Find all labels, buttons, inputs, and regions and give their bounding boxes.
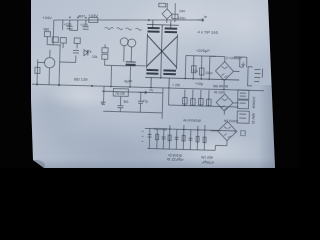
svg-text:47k: 47k (86, 50, 92, 54)
svg-text:100n: 100n (205, 71, 212, 75)
svg-text:+ 2W: + 2W (172, 83, 181, 87)
svg-text:3x10A 2x: 3x10A 2x (168, 153, 182, 157)
svg-text:4 x TIP 245: 4 x TIP 245 (197, 29, 218, 35)
svg-text:24V/0.5A: 24V/0.5A (223, 119, 238, 123)
svg-text:10k: 10k (92, 55, 98, 59)
svg-text:100n: 100n (178, 16, 186, 20)
svg-text:+24V: +24V (42, 15, 52, 20)
svg-text:+24V: +24V (88, 13, 98, 18)
svg-text:+220µF: +220µF (196, 48, 210, 53)
svg-text:5M49 84: 5M49 84 (153, 127, 166, 131)
svg-text:10µ: 10µ (192, 69, 198, 73)
svg-text:7V: 7V (149, 88, 154, 92)
svg-text:680: 680 (44, 28, 50, 32)
svg-text:BAV 10: BAV 10 (251, 113, 255, 124)
svg-text:78 05: 78 05 (115, 91, 126, 96)
svg-text:4k 100n: 4k 100n (214, 90, 226, 94)
svg-text:NB 4R7W: NB 4R7W (213, 84, 229, 88)
svg-text:5k1: 5k1 (124, 100, 129, 104)
svg-text:24V: 24V (179, 9, 186, 13)
svg-text:+100: +100 (80, 23, 88, 27)
svg-text:4x HYN/1W: 4x HYN/1W (183, 118, 202, 123)
svg-text:4R7: 4R7 (78, 13, 86, 18)
svg-text:Ie: Ie (204, 15, 207, 19)
svg-text:BD 139: BD 139 (74, 76, 88, 81)
svg-text:+220: +220 (64, 23, 72, 27)
svg-text:1N5408: 1N5408 (251, 96, 255, 108)
svg-text:47µ: 47µ (143, 99, 149, 103)
svg-text:1µ: 1µ (100, 101, 104, 105)
svg-text:C=1N4007: C=1N4007 (226, 56, 243, 60)
svg-text:+10µ: +10µ (195, 82, 203, 86)
svg-text:4µAF: 4µAF (124, 79, 132, 83)
